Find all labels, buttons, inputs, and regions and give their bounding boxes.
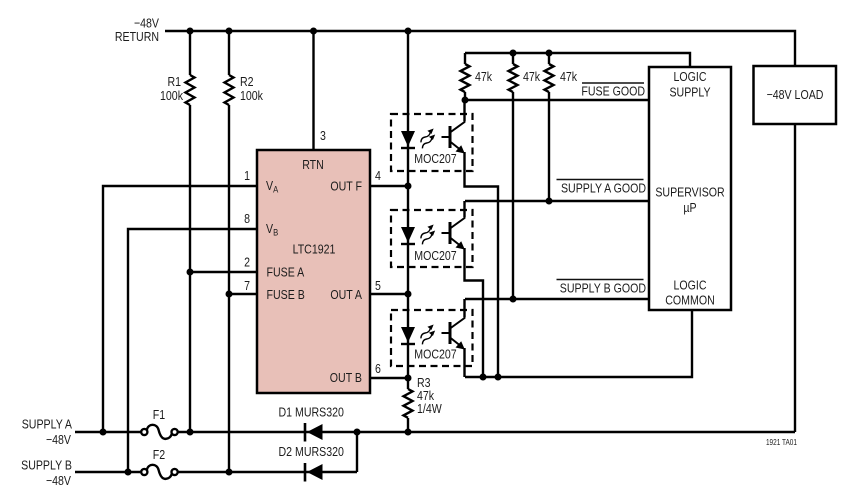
label SUPPLY A GOOD <box>557 180 647 196</box>
svg-text:1/4W: 1/4W <box>417 401 442 416</box>
svg-text:MOC207: MOC207 <box>414 346 457 361</box>
node supply A - R1 <box>187 429 194 436</box>
svg-text:1: 1 <box>244 168 250 183</box>
svg-text:LTC1921: LTC1921 <box>293 241 336 256</box>
wire FUSE GOOD <box>465 99 649 101</box>
label LOGIC SUPPLY <box>669 69 710 100</box>
light arrows U3 <box>418 323 437 345</box>
node OUT A <box>405 291 412 298</box>
wire FUSE A pin 2 <box>190 271 258 273</box>
svg-text:FUSE GOOD: FUSE GOOD <box>581 83 645 98</box>
svg-text:SUPPLY B GOOD: SUPPLY B GOOD <box>560 280 647 295</box>
label LOGIC COMMON <box>665 277 714 307</box>
wire OUT F pin 4 <box>370 185 408 187</box>
svg-text:47k: 47k <box>475 69 492 84</box>
wire opto U2 collector <box>463 201 465 217</box>
node emitter bus 2 <box>495 374 502 381</box>
node SUPPLY A GOOD <box>546 198 553 205</box>
wire opto U2 emitter to bus <box>465 248 484 377</box>
node emitter bus 1 <box>480 374 487 381</box>
wire opto U3 collector <box>463 299 465 317</box>
optocoupler U2 MOC207 dashed box <box>391 210 473 267</box>
resistor R3 <box>404 389 413 418</box>
svg-text:1921 TA01: 1921 TA01 <box>766 437 797 447</box>
wire FUSE B pin 7 <box>229 293 258 295</box>
wire 47k pull-up bus <box>465 53 690 67</box>
svg-text:RTN: RTN <box>302 157 324 172</box>
LED of opto U1 <box>401 131 415 148</box>
label SUPERVISOR uP <box>655 184 725 215</box>
wire SUPPLY B GOOD <box>465 298 649 300</box>
phototransistor of opto U3 <box>442 299 465 350</box>
node 47k2 top <box>510 50 517 57</box>
wire SUPPLY B rail <box>75 432 357 472</box>
supervisor uP box <box>649 67 731 310</box>
light arrows U1 <box>418 127 437 149</box>
svg-text:OUT B: OUT B <box>330 370 362 385</box>
-48V LOAD box <box>754 66 837 124</box>
light arrows U2 <box>418 223 437 245</box>
node supply B - R2 <box>226 469 233 476</box>
LED of opto U3 <box>401 327 415 344</box>
svg-text:SUPPLY A GOOD: SUPPLY A GOOD <box>561 180 646 195</box>
wire VB pin 8 <box>128 229 258 472</box>
svg-text:SUPPLY: SUPPLY <box>669 84 710 99</box>
svg-text:F1: F1 <box>153 407 166 422</box>
wire -48V RETURN top rail <box>165 31 795 66</box>
IC LTC1921 <box>257 150 370 393</box>
wire OUT A pin 5 <box>370 293 408 295</box>
svg-text:FUSE A: FUSE A <box>267 264 305 279</box>
svg-text:3: 3 <box>320 128 326 143</box>
svg-text:D2 MURS320: D2 MURS320 <box>279 444 345 459</box>
phototransistor of opto U1 <box>442 121 465 154</box>
svg-text:OUT A: OUT A <box>330 287 362 302</box>
svg-text:100k: 100k <box>160 88 183 103</box>
svg-text:FUSE B: FUSE B <box>267 287 305 302</box>
svg-text:RETURN: RETURN <box>115 29 159 44</box>
svg-text:−48V: −48V <box>46 432 71 447</box>
label SUPPLY B GOOD <box>557 280 647 296</box>
svg-text:47k: 47k <box>523 69 540 84</box>
svg-text:5: 5 <box>375 278 381 293</box>
optocoupler U1 MOC207 dashed box <box>391 114 473 171</box>
diode D1 <box>305 423 323 442</box>
phototransistor of opto U2 <box>442 201 465 250</box>
node R2 top <box>226 28 233 35</box>
fuse F1 <box>141 425 178 439</box>
svg-text:6: 6 <box>375 361 381 376</box>
node supply A - D2 join <box>354 429 361 436</box>
svg-text:100k: 100k <box>240 88 263 103</box>
wire emitter common bus <box>465 310 692 377</box>
fuse F2 <box>141 465 178 479</box>
node SUPPLY B GOOD <box>510 296 517 303</box>
node 47k3 top <box>546 50 553 57</box>
node FUSE A tap <box>187 269 194 276</box>
node OUT B <box>405 375 412 382</box>
svg-text:COMMON: COMMON <box>665 292 714 307</box>
node LED string top <box>405 28 412 35</box>
wire opto U1 emitter to bus <box>465 152 499 377</box>
node supply A - VA <box>100 429 107 436</box>
svg-text:LOGIC: LOGIC <box>674 277 707 292</box>
wire LED string column <box>407 31 409 432</box>
resistor 47k #2 <box>509 53 518 299</box>
node R1 top <box>187 28 194 35</box>
node OUT F <box>405 183 412 190</box>
node FUSE B tap <box>226 291 233 298</box>
wire SUPPLY A GOOD <box>465 200 649 202</box>
node RTN top <box>310 28 317 35</box>
label FUSE GOOD <box>581 83 645 99</box>
svg-text:MOC207: MOC207 <box>414 151 457 166</box>
svg-text:OUT F: OUT F <box>330 178 362 193</box>
svg-text:8: 8 <box>244 211 250 226</box>
svg-text:µP: µP <box>683 200 696 215</box>
wire R2 column <box>228 31 230 472</box>
svg-text:−48V LOAD: −48V LOAD <box>767 87 824 102</box>
LED of opto U2 <box>401 227 415 244</box>
node supply A - R3 <box>405 429 412 436</box>
svg-text:2: 2 <box>244 254 250 269</box>
svg-text:LOGIC: LOGIC <box>674 69 707 84</box>
diode D2 <box>305 463 323 482</box>
wire opto U1 collector <box>463 100 465 121</box>
wire RTN pin 3 <box>312 31 314 150</box>
svg-text:SUPERVISOR: SUPERVISOR <box>655 184 725 199</box>
wire opto U3 emitter to bus <box>463 348 465 377</box>
resistor R1 <box>186 75 195 105</box>
wire OUT B pin 6 <box>370 377 408 379</box>
svg-text:SUPPLY A: SUPPLY A <box>22 416 72 431</box>
svg-text:7: 7 <box>244 278 250 293</box>
wire R1 column <box>189 31 191 432</box>
svg-text:F2: F2 <box>153 447 166 462</box>
svg-text:−48V: −48V <box>46 473 71 488</box>
svg-text:SUPPLY B: SUPPLY B <box>21 457 72 472</box>
resistor R2 <box>225 75 234 105</box>
node supply B - VB <box>125 469 132 476</box>
resistor 47k #1 <box>461 53 470 100</box>
svg-text:D1 MURS320: D1 MURS320 <box>279 404 345 419</box>
optocoupler U3 MOC207 dashed box <box>391 310 473 366</box>
node FUSE GOOD <box>462 97 469 104</box>
wire VA pin 1 <box>103 186 258 432</box>
svg-text:4: 4 <box>375 168 381 183</box>
svg-text:47k: 47k <box>560 69 577 84</box>
svg-text:MOC207: MOC207 <box>414 248 457 263</box>
resistor 47k #3 <box>545 53 554 201</box>
wire SUPPLY A rail <box>75 124 795 432</box>
